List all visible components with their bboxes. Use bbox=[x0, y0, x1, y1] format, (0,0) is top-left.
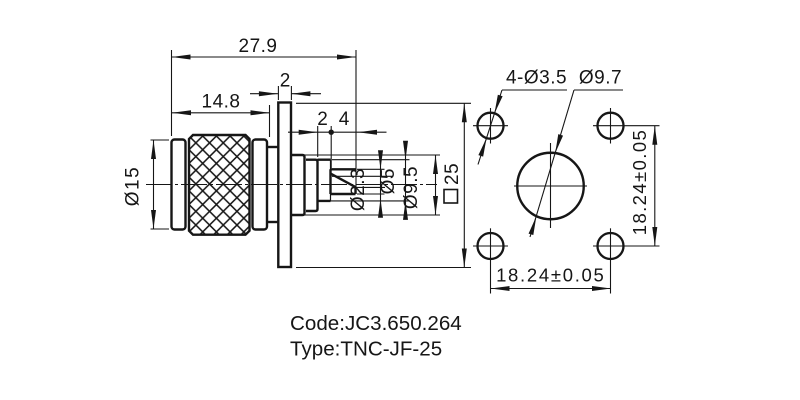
coupling nut right cap ring bbox=[253, 140, 268, 230]
svg-text:14.8: 14.8 bbox=[202, 92, 241, 113]
mounting flange (side view) bbox=[278, 103, 291, 268]
svg-text:Ø5: Ø5 bbox=[378, 168, 399, 194]
svg-text:25: 25 bbox=[442, 163, 463, 185]
dimension Ø5 bbox=[319, 141, 410, 219]
rear step 2 bbox=[306, 160, 318, 211]
center hole Ø9.7 bbox=[517, 153, 584, 220]
dimension Ø9.5 bbox=[292, 155, 440, 215]
dimension 18.24±0.05 horizontal bbox=[491, 288, 612, 290]
dimension Ø15 bbox=[151, 140, 170, 229]
leader Ø9.7 bbox=[530, 90, 623, 237]
dimension square 25 bbox=[296, 103, 471, 267]
mounting hole top-left bbox=[478, 113, 504, 139]
svg-text:Ø9.7: Ø9.7 bbox=[579, 68, 622, 89]
mounting hole bottom-left bbox=[478, 233, 504, 259]
svg-text:Ø2.3: Ø2.3 bbox=[348, 168, 369, 211]
svg-text:4: 4 bbox=[339, 109, 350, 130]
dimension 2 (flange thickness) bbox=[250, 86, 321, 100]
dimension 27.9 bbox=[172, 50, 357, 194]
rear step Ø9.5 bbox=[291, 155, 305, 215]
dimension Ø2.3 bbox=[332, 151, 392, 216]
contact slot taper bbox=[331, 174, 356, 187]
svg-text:4-Ø3.5: 4-Ø3.5 bbox=[506, 68, 567, 89]
dimension 14.8 bbox=[172, 105, 270, 137]
svg-text:Code:JC3.650.264: Code:JC3.650.264 bbox=[290, 312, 462, 335]
coupling nut left cap ring bbox=[172, 140, 186, 230]
svg-text:Ø9.5: Ø9.5 bbox=[401, 166, 422, 209]
svg-text:27.9: 27.9 bbox=[239, 36, 278, 57]
svg-text:2: 2 bbox=[317, 109, 328, 130]
svg-text:2: 2 bbox=[280, 71, 291, 92]
leader 4-Ø3.5 bbox=[478, 90, 567, 165]
mounting hole bottom-right bbox=[598, 233, 624, 259]
mounting hole top-right bbox=[598, 113, 624, 139]
dimension 18.24±0.05 vertical bbox=[654, 126, 656, 246]
svg-text:Ø15: Ø15 bbox=[123, 166, 144, 206]
dimension 2 / 4 (rear steps) bbox=[288, 126, 387, 168]
center contact socket bbox=[331, 169, 356, 194]
centerline of connector axis bbox=[146, 184, 437, 186]
svg-text:Type:TNC-JF-25: Type:TNC-JF-25 bbox=[290, 338, 442, 361]
svg-text:18.24±0.05: 18.24±0.05 bbox=[629, 129, 650, 235]
svg-text:18.24±0.05: 18.24±0.05 bbox=[496, 265, 605, 286]
insulator collar bbox=[318, 160, 331, 201]
knurled coupling nut body bbox=[189, 135, 250, 235]
shaft between nut and flange bbox=[267, 146, 278, 148]
